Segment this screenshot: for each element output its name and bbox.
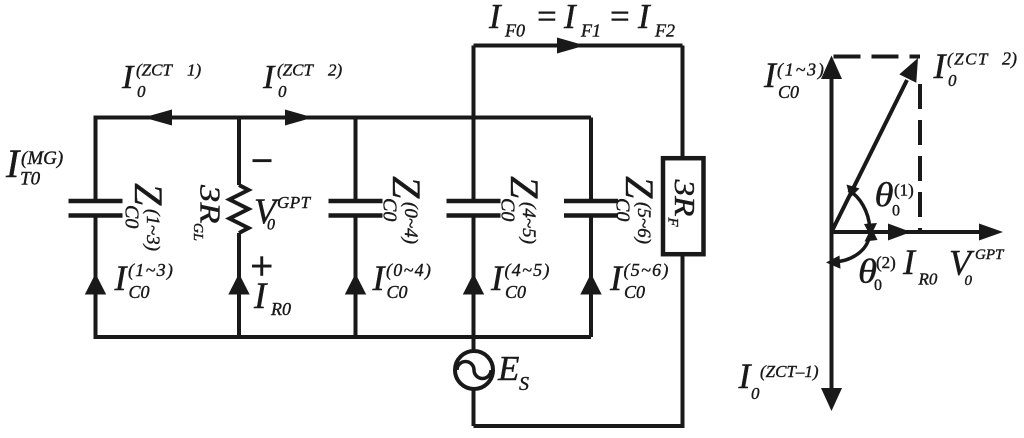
svg-text:(ZCT: (ZCT [947, 50, 989, 69]
label I_C0(5~6) [609, 258, 670, 302]
label phasor I_R0 [902, 242, 938, 289]
svg-text:I: I [902, 242, 917, 282]
svg-text:θ: θ [875, 177, 894, 214]
svg-text:C0: C0 [505, 282, 526, 302]
label plus sign [252, 256, 272, 276]
wire branch5 lower [589, 218, 593, 338]
arrow I_R0 up branch2 [228, 274, 249, 295]
svg-text:I: I [114, 258, 129, 298]
svg-text:Z: Z [617, 176, 662, 199]
wire branch1 vertical upper [94, 116, 98, 200]
svg-text:(0~4): (0~4) [400, 202, 421, 244]
svg-text:Z: Z [126, 183, 171, 206]
wire top bus [94, 116, 592, 120]
wire branch5 upper [589, 118, 593, 200]
svg-text:C0: C0 [121, 205, 143, 228]
svg-text:0: 0 [137, 82, 146, 101]
capacitor Z_C0(5~6) plates [564, 201, 618, 216]
phasor: arc theta2 [832, 236, 870, 262]
wire branch4 lower [472, 218, 476, 353]
svg-text:=: = [537, 0, 557, 36]
arrow I_C0(1~3) up branch1 [85, 274, 106, 295]
wire right vertical lower from 3RF [681, 254, 685, 426]
svg-text:0: 0 [874, 277, 882, 294]
svg-text:(MG): (MG) [21, 148, 63, 169]
svg-text:F0: F0 [504, 21, 525, 41]
svg-text:(2): (2) [876, 253, 896, 272]
label IT0(MG) [5, 141, 63, 190]
svg-text:(1~3): (1~3) [777, 60, 826, 81]
svg-text:(0~4): (0~4) [386, 260, 432, 281]
source E_S circle [455, 351, 493, 389]
svg-text:(4~5): (4~5) [505, 260, 551, 281]
resistor 3R_F box [663, 158, 704, 254]
label 3R_GL rotated [190, 184, 225, 241]
wire branch2 upper [237, 118, 241, 186]
svg-text:GPT: GPT [975, 247, 1005, 263]
svg-text:(4~5): (4~5) [518, 202, 539, 244]
svg-text:GPT: GPT [277, 193, 312, 212]
svg-text:S: S [519, 373, 529, 395]
label phasor I0(ZCT-1) [738, 356, 819, 403]
svg-text:I: I [5, 141, 21, 186]
label IF0 = IF1 = IF2 [488, 0, 675, 41]
capacitor Z_C0(4~5) plates [447, 201, 501, 216]
svg-text:C0: C0 [612, 198, 634, 221]
wire branch2 lower [237, 233, 241, 337]
label minus sign [253, 159, 272, 162]
svg-text:I: I [372, 258, 387, 298]
label I0(ZCT 2) [262, 59, 343, 101]
resistor 3R_GL zigzag [230, 185, 249, 233]
svg-text:I: I [609, 258, 624, 298]
svg-text:C0: C0 [497, 198, 519, 221]
svg-text:Z: Z [502, 176, 547, 199]
svg-text:T0: T0 [20, 169, 41, 190]
svg-text:R0: R0 [918, 270, 938, 289]
svg-text:R0: R0 [270, 299, 291, 319]
phasor: vector I0(ZCT 2) diagonal [832, 80, 908, 232]
svg-text:I: I [488, 0, 503, 36]
label theta2 [858, 253, 896, 294]
svg-text:3R: 3R [194, 184, 225, 224]
svg-text:I: I [262, 59, 276, 96]
label phasor I0(ZCT 2) [933, 46, 1018, 90]
capacitor Z_C0(1~3) plates [69, 201, 123, 216]
svg-text:(1~3): (1~3) [142, 209, 163, 251]
svg-text:F1: F1 [580, 21, 601, 41]
svg-text:0: 0 [892, 203, 900, 220]
arrow IF0 pointing right on fault loop [557, 38, 585, 54]
label phasor I_C0(1~3) [763, 55, 826, 102]
label phasor V0 GPT [949, 243, 1005, 290]
label I_C0(4~5) [490, 258, 551, 302]
svg-text:0: 0 [267, 217, 275, 234]
label I_C0(0~4) [372, 258, 433, 302]
label I_R0 [253, 276, 291, 319]
arrow I0(ZCT 2) pointing right on top bus [285, 110, 313, 126]
phasor: dashed vertical [918, 84, 922, 230]
wire branch3 lower [354, 218, 358, 338]
svg-text:(5~6): (5~6) [624, 260, 670, 281]
svg-text:I: I [253, 276, 268, 317]
svg-text:2): 2) [1002, 49, 1017, 70]
svg-text:I: I [933, 46, 948, 86]
svg-text:Z: Z [384, 176, 429, 199]
svg-text:C0: C0 [129, 282, 150, 302]
svg-text:(ZCT–1): (ZCT–1) [760, 362, 819, 381]
svg-text:F2: F2 [654, 21, 675, 41]
label 3R_F rotated [665, 178, 701, 227]
svg-text:GL: GL [190, 223, 205, 241]
label Z_C0(5~6) rotated [612, 176, 663, 244]
svg-text:I: I [121, 59, 135, 96]
svg-text:(ZCT: (ZCT [136, 61, 173, 80]
phasor: axis I_C0 up [830, 78, 834, 232]
wire branch4 top loop vertical [472, 46, 476, 200]
phasor: arc theta1 [849, 190, 870, 228]
svg-text:I: I [637, 0, 652, 36]
svg-text:C0: C0 [778, 82, 799, 102]
phasor: axis V0 right [832, 230, 981, 234]
svg-text:0: 0 [965, 273, 973, 289]
label I0(ZCT 1) [121, 59, 202, 101]
svg-text:I: I [763, 55, 778, 95]
phasor: I_R0 arrowhead on axis [888, 224, 911, 241]
label Z_C0(1~3) rotated [121, 183, 172, 251]
label V0 GPT [254, 191, 312, 234]
wire top fault loop horizontal [474, 44, 683, 48]
arrow I_C0(0~4) up branch3 [345, 274, 366, 295]
svg-text:E: E [497, 349, 519, 388]
label Z_C0(4~5) rotated [497, 176, 548, 244]
arrow I_C0(5~6) up branch5 [580, 274, 601, 295]
phasor: axis I0(ZCT-1) down [830, 232, 834, 388]
wire bottom bus [94, 335, 592, 339]
svg-text:(1): (1) [894, 181, 914, 200]
wire source lower [472, 388, 476, 426]
svg-text:2): 2) [328, 61, 343, 80]
label Z_C0(0~4) rotated [379, 176, 430, 244]
wire branch1 vertical lower [94, 218, 98, 340]
svg-text:0: 0 [278, 82, 287, 101]
svg-text:(5~6): (5~6) [633, 202, 654, 244]
svg-text:3R: 3R [668, 178, 700, 216]
svg-text:0: 0 [751, 384, 760, 403]
label theta1 [875, 177, 914, 220]
svg-text:F: F [665, 217, 681, 228]
svg-text:C0: C0 [379, 198, 401, 221]
wire bottom return [474, 424, 685, 428]
source E_S sine wave [457, 362, 491, 379]
svg-text:(ZCT: (ZCT [277, 61, 314, 80]
arrow I0(ZCT 1) pointing left on top bus [144, 110, 173, 126]
svg-text:C0: C0 [624, 282, 645, 302]
svg-text:I: I [563, 0, 578, 36]
label I_C0(1~3) [114, 258, 175, 302]
svg-text:(1~3): (1~3) [128, 260, 174, 281]
phasor: dashed horizontal [834, 55, 921, 59]
wire right vertical upper to 3RF [681, 46, 685, 159]
svg-text:1): 1) [187, 61, 202, 80]
svg-text:I: I [490, 258, 505, 298]
label E_S [497, 349, 529, 395]
arrow I_C0(4~5) up branch4 [463, 274, 484, 295]
capacitor Z_C0(0~4) plates [329, 201, 383, 216]
svg-text:C0: C0 [387, 282, 408, 302]
svg-text:=: = [610, 0, 630, 36]
svg-text:0: 0 [948, 71, 957, 90]
wire branch3 upper [354, 118, 358, 200]
